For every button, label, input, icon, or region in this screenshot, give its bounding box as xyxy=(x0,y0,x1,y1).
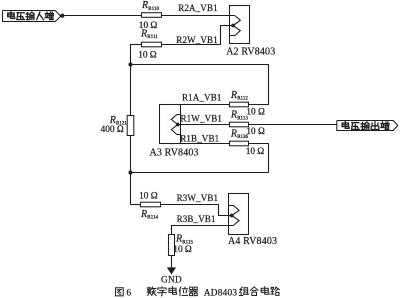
wire input xyxy=(63,15,142,17)
wire A3 pin R1A to R112 xyxy=(181,104,230,106)
svg-text:R1W_VB1: R1W_VB1 xyxy=(181,114,223,124)
resistor R115 body xyxy=(169,235,175,256)
svg-text:6: 6 xyxy=(126,288,131,298)
IC A4 wiper chevron symbol xyxy=(229,206,240,216)
svg-text:A4 RV8403: A4 RV8403 xyxy=(228,236,277,247)
IC U-A3 RV8403 digital potentiometer body xyxy=(160,105,181,144)
svg-text:10 Ω: 10 Ω xyxy=(173,245,192,255)
wire R110 to A2 pin R2A xyxy=(162,15,235,17)
wire feedback bottom xyxy=(131,172,269,174)
svg-text:RR115: RR115 xyxy=(175,234,193,246)
svg-text:R1B_VB1: R1B_VB1 xyxy=(180,134,219,144)
node input terminal dot xyxy=(60,14,64,18)
wire R3B from A4 to R115 xyxy=(172,226,234,235)
wire R2W from R111 to A2 wiper xyxy=(162,26,232,45)
wire R3W from R114 to A4 wiper xyxy=(161,205,232,216)
svg-text:10 Ω: 10 Ω xyxy=(246,147,265,157)
IC U-A4 RV8403 digital potentiometer body xyxy=(229,194,249,235)
svg-text:10 Ω: 10 Ω xyxy=(246,108,265,118)
IC U-A2 RV8403 digital potentiometer body xyxy=(230,6,250,44)
svg-text:R2A_VB1: R2A_VB1 xyxy=(178,3,218,13)
IC A2 wiper chevron symbol xyxy=(233,16,240,26)
IC A3 wiper chevron symbol xyxy=(171,115,180,125)
svg-text:R1A_VB1: R1A_VB1 xyxy=(182,93,222,103)
svg-text:10 Ω: 10 Ω xyxy=(139,191,158,201)
svg-text:10 Ω: 10 Ω xyxy=(246,127,265,137)
wire A3 wiper R1W to R113 xyxy=(178,124,230,126)
node input terminal 电压输入端 xyxy=(3,11,61,22)
wire feedback top xyxy=(131,65,269,105)
svg-text:RR114: RR114 xyxy=(140,209,158,221)
svg-text:GND: GND xyxy=(161,276,182,286)
svg-text:A3 RV8403: A3 RV8403 xyxy=(150,148,199,159)
svg-text:RR112: RR112 xyxy=(230,90,248,102)
wire R111 left xyxy=(131,44,142,46)
resistor R111 body xyxy=(142,42,162,47)
wire A3 pin R1B to R136 xyxy=(181,143,230,145)
node A3 wiper xyxy=(176,123,180,127)
ground xyxy=(167,267,176,274)
svg-text:400 Ω: 400 Ω xyxy=(101,125,124,135)
svg-text:R3B_VB1: R3B_VB1 xyxy=(177,214,216,224)
resistor R114 body xyxy=(141,202,161,207)
node junction bottom xyxy=(128,170,132,174)
wire output xyxy=(249,124,337,126)
wire R114 left xyxy=(131,204,141,206)
svg-text:A2 RV8403: A2 RV8403 xyxy=(226,46,275,57)
resistor R121 body xyxy=(127,116,134,136)
node output terminal 电压输出端 xyxy=(337,121,398,131)
label figure caption 图6 数字电位器 AD8403 组合电路 xyxy=(116,288,124,296)
wire R136 right xyxy=(249,144,269,173)
svg-text:10 Ω: 10 Ω xyxy=(138,51,157,61)
resistor R110 body xyxy=(142,13,162,18)
resistor R112 body xyxy=(230,102,249,107)
svg-text:RR110: RR110 xyxy=(141,0,159,12)
svg-text:AD8403: AD8403 xyxy=(204,288,238,298)
svg-text:R3W_VB1: R3W_VB1 xyxy=(177,193,219,203)
resistor R113 body xyxy=(230,122,249,127)
svg-text:R2W_VB1: R2W_VB1 xyxy=(176,35,218,45)
wire left bus vertical xyxy=(130,44,132,205)
resistor R136 body xyxy=(230,141,249,146)
node junction top xyxy=(128,62,132,66)
node A2 wiper xyxy=(231,24,235,28)
wire R115 to ground xyxy=(171,256,173,268)
node A4 wiper xyxy=(230,214,234,218)
wire R112 right xyxy=(249,104,270,106)
